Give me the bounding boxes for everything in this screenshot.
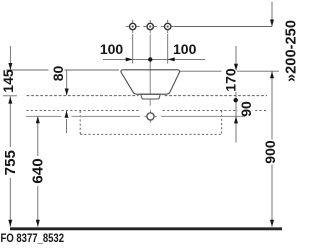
dimension line 640 (37, 116, 39, 226)
halo around drain circle (140, 109, 161, 125)
dimension line 80 (66, 71, 68, 96)
dashed apron rectangle bottom edge (80, 133, 221, 135)
dimension line 145 upper segment (9, 46, 11, 70)
washbasin bowl outline (121, 70, 180, 94)
chain dot 170/90 (234, 98, 238, 102)
arrowhead up 640 top (36, 116, 40, 123)
solid gray frame underside line (640 level) (26, 115, 245, 117)
halo for text 90 (238, 101, 253, 115)
dimension line below 80 (slab lower arrow) (66, 111, 68, 133)
svg-text:640: 640 (29, 158, 46, 183)
svg-text:170: 170 (222, 68, 238, 92)
dashed apron rectangle right edge (221, 111, 223, 135)
arrowhead up 755 top / 145 bottom (8, 97, 12, 104)
tap hole circle left (130, 23, 171, 29)
drain hole circle in counter (147, 113, 154, 120)
tap height horizontal line (175, 26, 273, 28)
dimension line 100/100 (103, 58, 205, 60)
halo for text 80 (49, 65, 65, 83)
svg-text:100: 100 (100, 41, 124, 57)
short countertop extension line at far left (3, 95, 17, 97)
countertop top surface dashed line (27, 95, 268, 97)
dimension line 170/90 (235, 46, 237, 143)
extension line below right tap hole (167, 34, 169, 64)
arrowhead down 170 top (234, 64, 238, 71)
washbasin drain cup (139, 95, 163, 98)
tap hole inner dots (132, 25, 169, 27)
drain hole cross ticks (145, 110, 157, 122)
arrowhead right at x132.7 on 100 dim (126, 57, 133, 61)
tap hole cross ticks (126, 20, 175, 33)
arrowhead up slab bottom (65, 111, 69, 118)
svg-text:»200-250: »200-250 (282, 20, 299, 82)
right dimension line top segment (200-250 upper) (271, 2, 273, 27)
arrowhead up 200-250 bottom / 900 top (270, 71, 274, 78)
arrowhead up 90 bottom (234, 116, 238, 123)
svg-text:80: 80 (50, 66, 66, 82)
halo for text 900 (263, 140, 276, 165)
right dimension line 900 / 200-250 lower (271, 71, 273, 226)
halo for text 755 (3, 147, 17, 178)
svg-text:755: 755 (2, 149, 19, 175)
vertical centerline through basin (149, 34, 151, 106)
halo for text 145 (2, 71, 14, 92)
arrowhead down 200-250 top (270, 20, 274, 27)
dashed apron rectangle left edge (79, 111, 81, 134)
halo over solid line at lower 80 arrow (62, 114, 72, 119)
floor line (10, 227, 282, 230)
arrowhead down 145 top (8, 63, 12, 70)
halo for text 640 (31, 156, 45, 186)
arrowhead down 900 bottom (270, 220, 274, 227)
svg-text:90: 90 (238, 101, 254, 117)
svg-text:900: 900 (262, 140, 278, 164)
arrowhead left at x167.7 on 100 dim (168, 57, 175, 61)
dimension line 755 (and 145 lower arrow) (9, 97, 11, 227)
countertop underside dashed line (26, 110, 267, 112)
chain dot on 100 dim (148, 57, 152, 61)
arrowhead down 755 bottom (8, 220, 12, 227)
right rim extension line (180, 70, 279, 72)
left rim extension line (6, 69, 119, 71)
arrowhead down 80 (65, 89, 69, 96)
svg-text:100: 100 (173, 41, 197, 57)
arrowhead down 640 bottom (36, 220, 40, 227)
extension line below left tap hole (132, 34, 134, 64)
svg-text:FO 8377_8532: FO 8377_8532 (1, 233, 65, 245)
halo for text 170 (222, 67, 238, 92)
svg-text:145: 145 (0, 69, 16, 93)
